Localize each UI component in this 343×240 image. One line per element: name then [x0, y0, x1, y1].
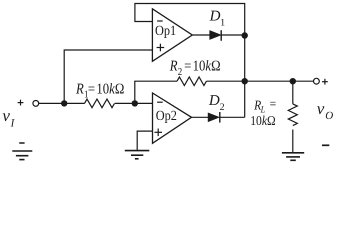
Op1 non-inverting input plus sign — [157, 44, 165, 52]
output terminal plus sign — [322, 79, 328, 85]
resistor R2 — [177, 77, 206, 86]
svg-text:10kΩ: 10kΩ — [250, 113, 275, 128]
wire: Op2 output to D2 anode — [192, 116, 209, 118]
node: junction at Op1 + branch — [61, 100, 67, 106]
wire: R2 to output node — [206, 80, 313, 82]
wire: RL to ground — [292, 130, 294, 153]
input source minus sign — [19, 142, 24, 144]
label vI — [2, 106, 15, 130]
svg-text:Op1: Op1 — [155, 24, 176, 39]
label R1 = 10kOhm — [75, 82, 124, 101]
op-amp Op2 — [153, 93, 192, 143]
svg-text:R: R — [169, 59, 178, 75]
op-amp Op1 — [152, 9, 192, 62]
label D2 — [208, 93, 225, 113]
svg-text:D: D — [209, 9, 221, 25]
wire: input terminal to R1 — [39, 102, 85, 104]
node: junction of trunk with output line — [242, 78, 248, 84]
wire: D2 cathode up to output node — [220, 116, 245, 118]
wire: branch up to R2 line — [135, 81, 177, 103]
svg-text:10kΩ: 10kΩ — [96, 82, 124, 98]
wire: Op1 feedback loop from D1 cathode to inverting input — [135, 4, 245, 36]
wire: Op2 + input to ground — [137, 131, 152, 151]
svg-text:1: 1 — [220, 17, 225, 28]
svg-text:=: = — [88, 82, 95, 98]
input terminal plus sign — [18, 100, 24, 106]
ground (Op2 non-inverting input) — [125, 151, 150, 159]
diode D2 — [208, 112, 220, 123]
wire: D1 cathode to junction — [221, 34, 245, 36]
svg-text:v: v — [2, 106, 10, 125]
svg-text:=: = — [270, 96, 277, 111]
svg-text:Op2: Op2 — [156, 109, 177, 124]
label D1 — [209, 9, 226, 29]
node: RL branch junction — [290, 78, 296, 84]
Op1 inverting input minus sign — [157, 20, 163, 22]
ground (input source) — [12, 151, 32, 160]
input terminal (open circle) — [33, 101, 39, 107]
ground (RL) — [282, 153, 304, 161]
output terminal (open circle) — [314, 78, 320, 84]
label RL = 10kOhm — [250, 96, 276, 128]
label vO — [317, 99, 333, 122]
node: D1 cathode / feedback junction — [242, 32, 248, 38]
wire: Op1 output to D1 anode — [192, 34, 210, 36]
label Op2 — [156, 109, 177, 124]
node: junction at R2 branch — [132, 100, 138, 106]
wire: R1 to Op2 inverting input — [115, 102, 153, 104]
resistor R1 — [85, 99, 115, 108]
wire: branch up to Op1 + input — [64, 50, 152, 103]
diode D1 — [210, 30, 222, 41]
label Op1 — [155, 24, 176, 39]
Op2 non-inverting input plus sign — [155, 129, 163, 137]
Op2 inverting input minus sign — [157, 101, 163, 103]
svg-text:=: = — [184, 59, 191, 75]
wire: output node down to RL — [292, 81, 294, 104]
svg-text:2: 2 — [178, 67, 182, 78]
label R2 = 10kOhm — [169, 59, 221, 79]
svg-text:v: v — [317, 99, 325, 118]
svg-text:D: D — [208, 93, 220, 109]
svg-text:2: 2 — [220, 102, 225, 113]
wire: vertical trunk from D1 junction down to D2 cathode level — [244, 36, 246, 118]
svg-text:O: O — [325, 110, 333, 122]
svg-text:R: R — [75, 82, 84, 98]
svg-text:10kΩ: 10kΩ — [193, 59, 221, 75]
output minus sign — [322, 144, 329, 146]
resistor RL — [288, 104, 297, 126]
